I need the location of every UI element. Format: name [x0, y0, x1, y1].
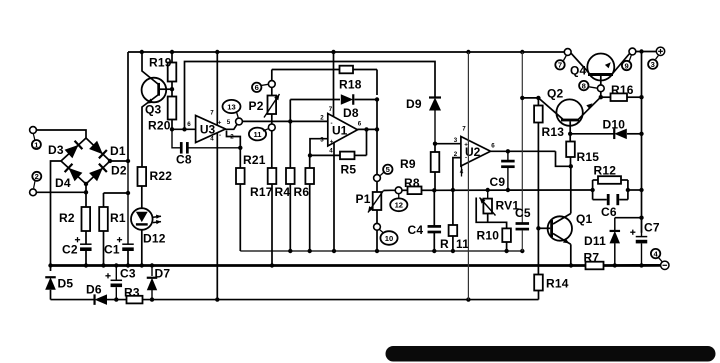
label D9: [406, 97, 422, 111]
svg-text:R19: R19: [149, 56, 172, 70]
svg-text:7: 7: [329, 106, 333, 113]
label circled 11: [249, 128, 268, 141]
resistor R14: [534, 275, 543, 291]
wire R21 bottom to sense line: [239, 184, 241, 251]
terminal 7 circle: [564, 49, 571, 56]
label RV1: [496, 199, 520, 213]
svg-text:D3: D3: [48, 143, 64, 157]
wire terminal 8 to R16 node: [600, 92, 602, 98]
svg-text:2: 2: [320, 115, 324, 122]
svg-text:Q4: Q4: [570, 64, 587, 78]
svg-text:R20: R20: [148, 119, 171, 133]
wire Q3 base: [159, 88, 172, 90]
svg-text:R12: R12: [594, 164, 617, 178]
label C8: [176, 153, 192, 167]
svg-text:D6: D6: [86, 283, 102, 297]
wire R15 bottom to junction: [570, 157, 572, 166]
label C6: [601, 205, 617, 219]
svg-text:3: 3: [651, 60, 655, 69]
label R1: [110, 211, 126, 225]
svg-text:C8: C8: [176, 153, 192, 167]
wire R9 to R8 node: [434, 172, 436, 190]
wire R19 top: [171, 52, 173, 63]
junction bus left end at DC- column: [48, 263, 52, 267]
svg-text:R14: R14: [546, 277, 569, 291]
svg-text:-: -: [330, 120, 332, 127]
svg-text:8: 8: [582, 82, 586, 91]
label D11: [584, 234, 606, 248]
label R19: [149, 56, 172, 70]
wire R1 bottom to bus: [103, 231, 105, 266]
svg-text:R7: R7: [584, 251, 600, 265]
svg-text:C2: C2: [62, 243, 78, 257]
resistor R17: [268, 168, 277, 184]
svg-text:C1: C1: [104, 243, 120, 257]
wire C1 bottom to ground bus: [127, 251, 129, 266]
junction dots on lower rail: [114, 297, 470, 301]
junction R5/R6 node: [308, 153, 312, 157]
label R7: [584, 251, 600, 265]
junction terminal2 wire at column: [84, 190, 88, 194]
svg-text:11: 11: [456, 237, 469, 251]
wire R16 right: [627, 96, 642, 98]
svg-text:R22: R22: [150, 169, 173, 183]
label D3: [48, 143, 64, 157]
svg-text:R10: R10: [477, 229, 500, 243]
transistor Q1: [548, 216, 572, 240]
wire R14 bottom: [538, 291, 540, 300]
resistor R6: [305, 168, 314, 184]
wire thin rail to C5: [521, 52, 523, 223]
junction feedback line at right column: [639, 188, 643, 192]
wire rail corner down to bridge DC+ node: [127, 52, 129, 161]
potentiometer P2: [264, 94, 280, 118]
label C9: [490, 175, 506, 189]
resistor R18: [340, 66, 354, 74]
svg-text:D4: D4: [55, 176, 71, 190]
wire P1 to terminal 10: [376, 210, 378, 223]
wire bridge left corner to DC- column: [51, 161, 62, 271]
label D6: [86, 283, 102, 297]
svg-text:Q3: Q3: [145, 103, 162, 117]
svg-text:U1: U1: [332, 123, 348, 137]
junction R1 tap on DC+ column: [126, 191, 130, 195]
label Q3: [145, 103, 162, 117]
wire terminal 10 down to sense line: [376, 230, 378, 251]
svg-text:D12: D12: [143, 232, 166, 246]
svg-text:R6: R6: [294, 185, 310, 199]
label R5: [341, 163, 357, 177]
transistor Q3: [142, 78, 167, 103]
wire Q2 node line: [522, 97, 538, 99]
svg-text:12: 12: [395, 201, 403, 210]
diode D4: [65, 164, 83, 182]
junction U3 input node at feedback: [182, 127, 186, 131]
svg-text:3: 3: [320, 137, 324, 144]
wire right column: [641, 52, 643, 233]
junction C9 bottom: [506, 188, 510, 192]
junction R9/R8 node: [432, 188, 436, 192]
wire R1 top stub: [103, 193, 105, 207]
svg-text:D9: D9: [406, 97, 422, 111]
svg-text:R1: R1: [110, 211, 126, 225]
junction dots on top rail: [140, 49, 644, 54]
wire U1 inverting input line: [242, 120, 327, 122]
resistor R3: [127, 296, 143, 304]
transistor Q2: [556, 99, 582, 125]
junction C9 top: [506, 149, 510, 153]
wire Q3 emitter to R22: [142, 95, 159, 168]
capacitor C6: [593, 194, 628, 205]
svg-text:R8: R8: [404, 176, 420, 190]
junction Q3 base at R19/R20: [170, 87, 174, 91]
wire feedback top from U3 input up and right: [185, 62, 436, 130]
svg-text:R4: R4: [275, 185, 291, 199]
svg-text:R2: R2: [59, 211, 75, 225]
svg-text:5: 5: [227, 119, 231, 126]
label R9: [400, 157, 416, 171]
wire Q1 base: [538, 227, 550, 229]
wire Q1 emitter lead: [553, 234, 571, 245]
label R11: [440, 237, 469, 251]
resistor R19: [168, 63, 177, 82]
svg-text:+: +: [464, 142, 468, 149]
wire U3 input from R20 node: [172, 128, 196, 130]
wire terminal 2 to bridge bottom column: [36, 191, 86, 193]
wire Q2 base down: [569, 121, 571, 133]
resistor R12: [593, 176, 628, 184]
label D2: [111, 164, 127, 178]
label R8: [404, 176, 420, 190]
junction D10 at column: [639, 132, 643, 136]
label R18: [339, 78, 362, 92]
op-amp U1: [328, 114, 358, 147]
terminal 12 circle: [395, 187, 402, 194]
resistor R2: [82, 207, 91, 231]
label D7: [155, 267, 171, 281]
label D4: [55, 176, 71, 190]
wire U1 pin4 down to sense line: [333, 143, 335, 251]
wire C4 bottom: [433, 233, 435, 251]
junction C2 at bus: [84, 263, 88, 267]
wire R12/C6 left side: [592, 180, 594, 200]
svg-text:6: 6: [358, 121, 362, 128]
terminal 9 circle: [629, 48, 636, 55]
wire R19 to R20: [171, 82, 173, 97]
label circled 9: [622, 55, 631, 70]
wire R11 top: [452, 190, 454, 225]
wire Q1 base column down through bus to R14: [537, 228, 539, 274]
label R12: [594, 164, 617, 178]
wire R5 feedback: [310, 129, 367, 155]
wire ground bus right of R7: [604, 264, 661, 267]
wire R6 column: [309, 155, 311, 168]
wire node to C4: [433, 190, 435, 226]
label circled 2: [32, 172, 41, 188]
svg-text:7: 7: [210, 110, 214, 117]
svg-text:C9: C9: [490, 175, 506, 189]
svg-text:C3: C3: [120, 267, 136, 281]
label C5: [515, 206, 531, 220]
wire U1 output: [358, 128, 378, 130]
op-amp U2: [461, 137, 491, 167]
wire sense line: [240, 250, 522, 252]
wire U2 output: [491, 150, 556, 152]
capacitor C8: [172, 129, 240, 153]
U2 pin numbers: [454, 126, 496, 176]
potentiometer P1: [368, 191, 384, 213]
wire ground bus left of R7: [51, 264, 586, 267]
label circled 4: [651, 249, 662, 262]
diode D2: [89, 164, 107, 182]
wire R1 top horizontal: [104, 192, 129, 194]
wire R13 bottom to Q1 base: [537, 123, 539, 229]
terminal 5 circle: [374, 175, 381, 182]
svg-text:D11: D11: [584, 234, 606, 248]
junction C7 top at column: [639, 216, 643, 220]
svg-text:D5: D5: [58, 277, 74, 291]
wire DC+ column down to C1: [127, 161, 129, 244]
capacitor C1 polarized: [117, 237, 134, 251]
label circled 6: [252, 83, 268, 93]
label C2: [62, 243, 78, 257]
wire bridge diamond edges: [61, 138, 110, 184]
resistor R11: [449, 225, 458, 236]
label D1: [110, 144, 126, 158]
label R22: [150, 169, 173, 183]
wire D11 top line: [615, 217, 642, 219]
wire U3 pin7 to rail: [216, 52, 218, 125]
wire terminal 6 to P2: [271, 87, 273, 95]
wire thin auxiliary rail through U2: [467, 52, 469, 300]
svg-text:9: 9: [624, 61, 628, 70]
label C3: [120, 267, 136, 281]
wire Q4 collector lead: [605, 53, 630, 73]
resistor R21: [236, 168, 245, 184]
resistor R15: [566, 142, 575, 158]
junction R13 top: [536, 96, 540, 100]
wire R10 bottom: [506, 242, 508, 251]
svg-text:D10: D10: [603, 118, 626, 132]
junction inv node at R11: [451, 188, 455, 192]
terminal 11 circle: [268, 124, 275, 131]
svg-text:R17: R17: [250, 185, 273, 199]
label P2: [249, 99, 264, 113]
junction R15 bottom / U2 out: [569, 164, 573, 168]
junction Q4 base / R16 node: [599, 95, 603, 99]
junction U1 output at R5: [364, 127, 368, 131]
label D5: [58, 277, 74, 291]
svg-text:Q1: Q1: [576, 212, 593, 226]
wire C5 bottom: [521, 230, 523, 251]
junction C1 at bus: [126, 263, 130, 267]
junction bridge bottom corner: [84, 182, 88, 186]
junction dots on ground bus: [114, 263, 644, 268]
junction R16 right at column: [639, 95, 643, 99]
capacitor C2 polarized: [75, 237, 92, 251]
wire R18 line: [272, 70, 377, 96]
junction C8 right at R21 column: [238, 146, 242, 150]
svg-text:+: +: [330, 139, 334, 146]
LED D12: [131, 208, 161, 230]
diode D11: [610, 218, 621, 266]
label R13: [542, 125, 565, 139]
wire R13 top stub: [537, 98, 539, 106]
capacitor C7 polarized: [630, 218, 647, 266]
resistor R7: [586, 262, 604, 270]
svg-text:6: 6: [187, 121, 191, 128]
label Q4: [570, 64, 587, 78]
junction U1 inv input at R4 column: [288, 119, 292, 123]
node DC+ junction: [126, 159, 130, 163]
label Q1: [576, 212, 593, 226]
label D12: [143, 232, 166, 246]
resistor R22: [138, 167, 147, 186]
junction dots on sense line: [288, 249, 524, 253]
svg-text:7: 7: [558, 61, 562, 70]
svg-text:-: -: [219, 132, 221, 139]
svg-text:4: 4: [329, 148, 333, 155]
label R2: [59, 211, 75, 225]
label R21: [243, 153, 266, 167]
junction R12 right at line: [626, 188, 630, 192]
diode D10: [570, 129, 641, 140]
junction feedback line at R12 left: [590, 188, 594, 192]
capacitor C3 polarized: [105, 266, 122, 300]
terminal 13 circle: [236, 118, 243, 125]
wire bridge bottom to R2: [85, 184, 87, 207]
svg-text:R13: R13: [542, 125, 565, 139]
label C7: [644, 221, 660, 235]
svg-text:+: +: [218, 120, 222, 127]
wire lower rail: [51, 299, 539, 301]
svg-text:R16: R16: [611, 83, 634, 97]
label R15: [577, 150, 600, 164]
label R20: [148, 119, 171, 133]
wire U3 output branch to R21/C8 node: [227, 131, 241, 169]
trimmer RV1: [480, 190, 496, 216]
terminal 6 circle: [268, 81, 275, 88]
resistor R1: [99, 207, 108, 231]
wire D8 line: [290, 100, 377, 122]
wire R18 line corner to terminal 6: [271, 70, 273, 81]
label R4: [275, 185, 291, 199]
label circled 12: [390, 194, 407, 212]
diode D8: [341, 94, 353, 105]
resistor R16: [611, 93, 628, 101]
svg-text:D2: D2: [111, 164, 127, 178]
junction D8 cathode at output column: [375, 97, 379, 101]
wire U2 noninverting input: [435, 143, 461, 145]
svg-text:13: 13: [227, 102, 235, 111]
wire R4 bottom: [289, 184, 291, 251]
label D8: [343, 106, 359, 120]
svg-text:7: 7: [462, 126, 466, 133]
junction thin rail at Q2 node: [520, 96, 524, 100]
svg-text:Q2: Q2: [547, 87, 564, 101]
capacitor C4: [428, 225, 442, 233]
resistor R5: [340, 152, 355, 160]
wire U1 output down to terminal 5: [376, 129, 378, 174]
censor bar: [386, 346, 716, 362]
wire R12/C6 right side: [627, 180, 629, 200]
svg-text:U3: U3: [200, 123, 216, 137]
resistor R8: [408, 187, 422, 195]
wire feedback line to right column: [628, 189, 642, 191]
wire R4 column: [289, 121, 291, 168]
wire terminal 12 to R8: [402, 189, 408, 191]
label R10: [477, 229, 500, 243]
wire R8 to feedback node: [422, 189, 435, 191]
svg-text:4: 4: [210, 136, 214, 143]
label Q2: [547, 87, 564, 101]
wire R22 to D12: [141, 186, 143, 208]
wire Q3 collector to rail: [142, 52, 159, 85]
svg-text:P1: P1: [356, 192, 371, 206]
svg-text:6: 6: [491, 143, 495, 150]
wire node to R9: [434, 144, 436, 152]
junction Q1 base node: [536, 226, 540, 230]
wire P1 wiper to terminal 12: [384, 189, 396, 191]
junction U1 output at column: [375, 127, 379, 131]
label D10: [603, 118, 626, 132]
label circled 7: [555, 56, 566, 70]
svg-text:R15: R15: [577, 150, 600, 164]
label circled 1: [32, 134, 41, 149]
label R3: [124, 286, 140, 300]
svg-text:D8: D8: [343, 106, 359, 120]
op-amp U3: [196, 116, 226, 143]
U3 pin numbers: [187, 110, 234, 143]
resistor R13: [534, 106, 543, 123]
label circled 3: [648, 56, 658, 70]
wire Q4 base: [600, 76, 602, 85]
wire U1 noninverting input: [310, 139, 328, 156]
wire U3 output to terminal 13: [226, 124, 238, 129]
svg-text:D1: D1: [110, 144, 126, 158]
diode D5: [45, 277, 56, 299]
U1 pin numbers: [320, 106, 362, 155]
capacitor C5: [516, 222, 530, 230]
wire R15 top stub: [569, 134, 571, 142]
svg-text:C4: C4: [408, 223, 424, 237]
resistor R20: [168, 97, 177, 120]
svg-text:P2: P2: [249, 99, 264, 113]
diode D6: [95, 294, 108, 305]
svg-text:D7: D7: [155, 267, 171, 281]
diode D1: [89, 141, 107, 159]
label P1: [356, 192, 371, 206]
junction U3 input node at R20: [170, 127, 174, 131]
svg-text:C7: C7: [644, 221, 660, 235]
label circled 8: [579, 81, 597, 91]
junction RV1 top: [486, 188, 490, 192]
wire terminal 1 to bridge top: [36, 130, 86, 138]
diode D9: [429, 98, 441, 144]
transistor Q4: [587, 54, 614, 81]
wire terminal 5 to P1: [376, 181, 378, 192]
wire R11 bottom: [452, 236, 454, 251]
svg-text:6: 6: [255, 83, 259, 92]
label circled 10: [380, 230, 398, 245]
wire R6 bottom: [309, 184, 311, 251]
diode D7: [147, 266, 158, 300]
svg-text:R21: R21: [243, 153, 266, 167]
capacitor C9: [501, 151, 515, 190]
wire terminal 11 to R17: [271, 131, 273, 168]
svg-text:C5: C5: [515, 206, 531, 220]
junction bridge right corner: [108, 159, 112, 163]
